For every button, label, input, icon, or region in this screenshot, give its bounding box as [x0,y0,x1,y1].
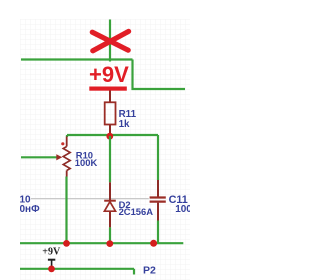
wire: lower horizontal rail [20,242,183,244]
svg-text:0нФ: 0нФ [20,204,41,215]
junction dot rail-C11 [150,240,157,247]
junction dot rail-R10 [63,240,70,247]
capacitor C11 top plate [150,196,166,198]
pin: R11 bottom to junction [109,125,111,137]
label 100 [175,204,198,215]
pin: C11 bottom [157,203,159,221]
svg-text:P2: P2 [143,265,156,277]
power label +9V (red) [89,62,129,87]
label P2 [143,265,156,277]
wire: bottom horizontal rail 2 [20,268,134,270]
diode D2 cathode bar [104,200,116,202]
label fragment 0нФ [20,204,41,215]
wire: corner down to R10 [66,135,68,137]
schematic canvas grid [20,19,190,280]
wire: junction to diode D2 [109,136,111,182]
white margin left [0,0,20,280]
junction dot rail-D2 [106,240,113,247]
junction dot +9V flag [48,266,55,273]
label C11 [169,194,188,206]
label R11 [119,109,137,120]
svg-text:100K: 100K [75,157,98,168]
resistor R11 body [105,102,116,124]
arrowhead of wiper [56,154,62,160]
power bar symbol +9V [89,87,127,91]
diode D2 triangle [104,202,115,212]
wire: long horizontal net, top [21,58,133,60]
net flag bar (bottom +9V) [48,259,55,261]
pin: R10 top [66,137,68,147]
wire: R10 bottom to lower rail [65,177,67,244]
net flag label +9V (bottom) [42,247,61,258]
wire: C11 to lower rail [157,221,159,244]
svg-text:2C156A: 2C156A [119,206,154,217]
label fragment 10 [20,195,32,206]
wire: D2 to lower rail [109,227,111,243]
pin: C11 top [157,180,159,197]
svg-text:1000: 1000 [175,204,190,215]
white margin top [0,0,190,19]
pin: +9V bar stem to R11 [109,91,111,103]
wire: middle horizontal net [67,134,158,136]
label D2 [119,199,131,210]
pin dot R10 wiper mark [61,142,64,145]
label 2C156A [119,206,154,217]
pin: D2 cathode [109,182,111,200]
capacitor C11 bottom plate [150,201,166,203]
svg-text:+9V: +9V [42,247,61,258]
net flag stem (bottom +9V) [51,261,53,269]
wire: C11 branch from middle net [157,135,159,180]
label 100K [75,157,98,168]
pin: R10 bottom [66,171,68,177]
label R10 [76,150,93,161]
wire: corner stub down near P2 [133,269,135,275]
svg-text:1k: 1k [119,119,130,130]
label 1k [119,119,130,130]
wire: wiper feed from left [21,156,57,158]
svg-text:+9V: +9V [89,62,129,87]
junction dot at R11 bottom [106,133,113,140]
wire: corner down from top net to +9V rail branch [133,60,186,90]
potentiometer R10 zigzag [63,147,70,171]
pin: D2 anode [109,212,111,228]
no-connect X marker [92,31,128,50]
wire: vertical stub with no-connect X [109,20,111,62]
ghost wire (gray) [31,198,149,200]
